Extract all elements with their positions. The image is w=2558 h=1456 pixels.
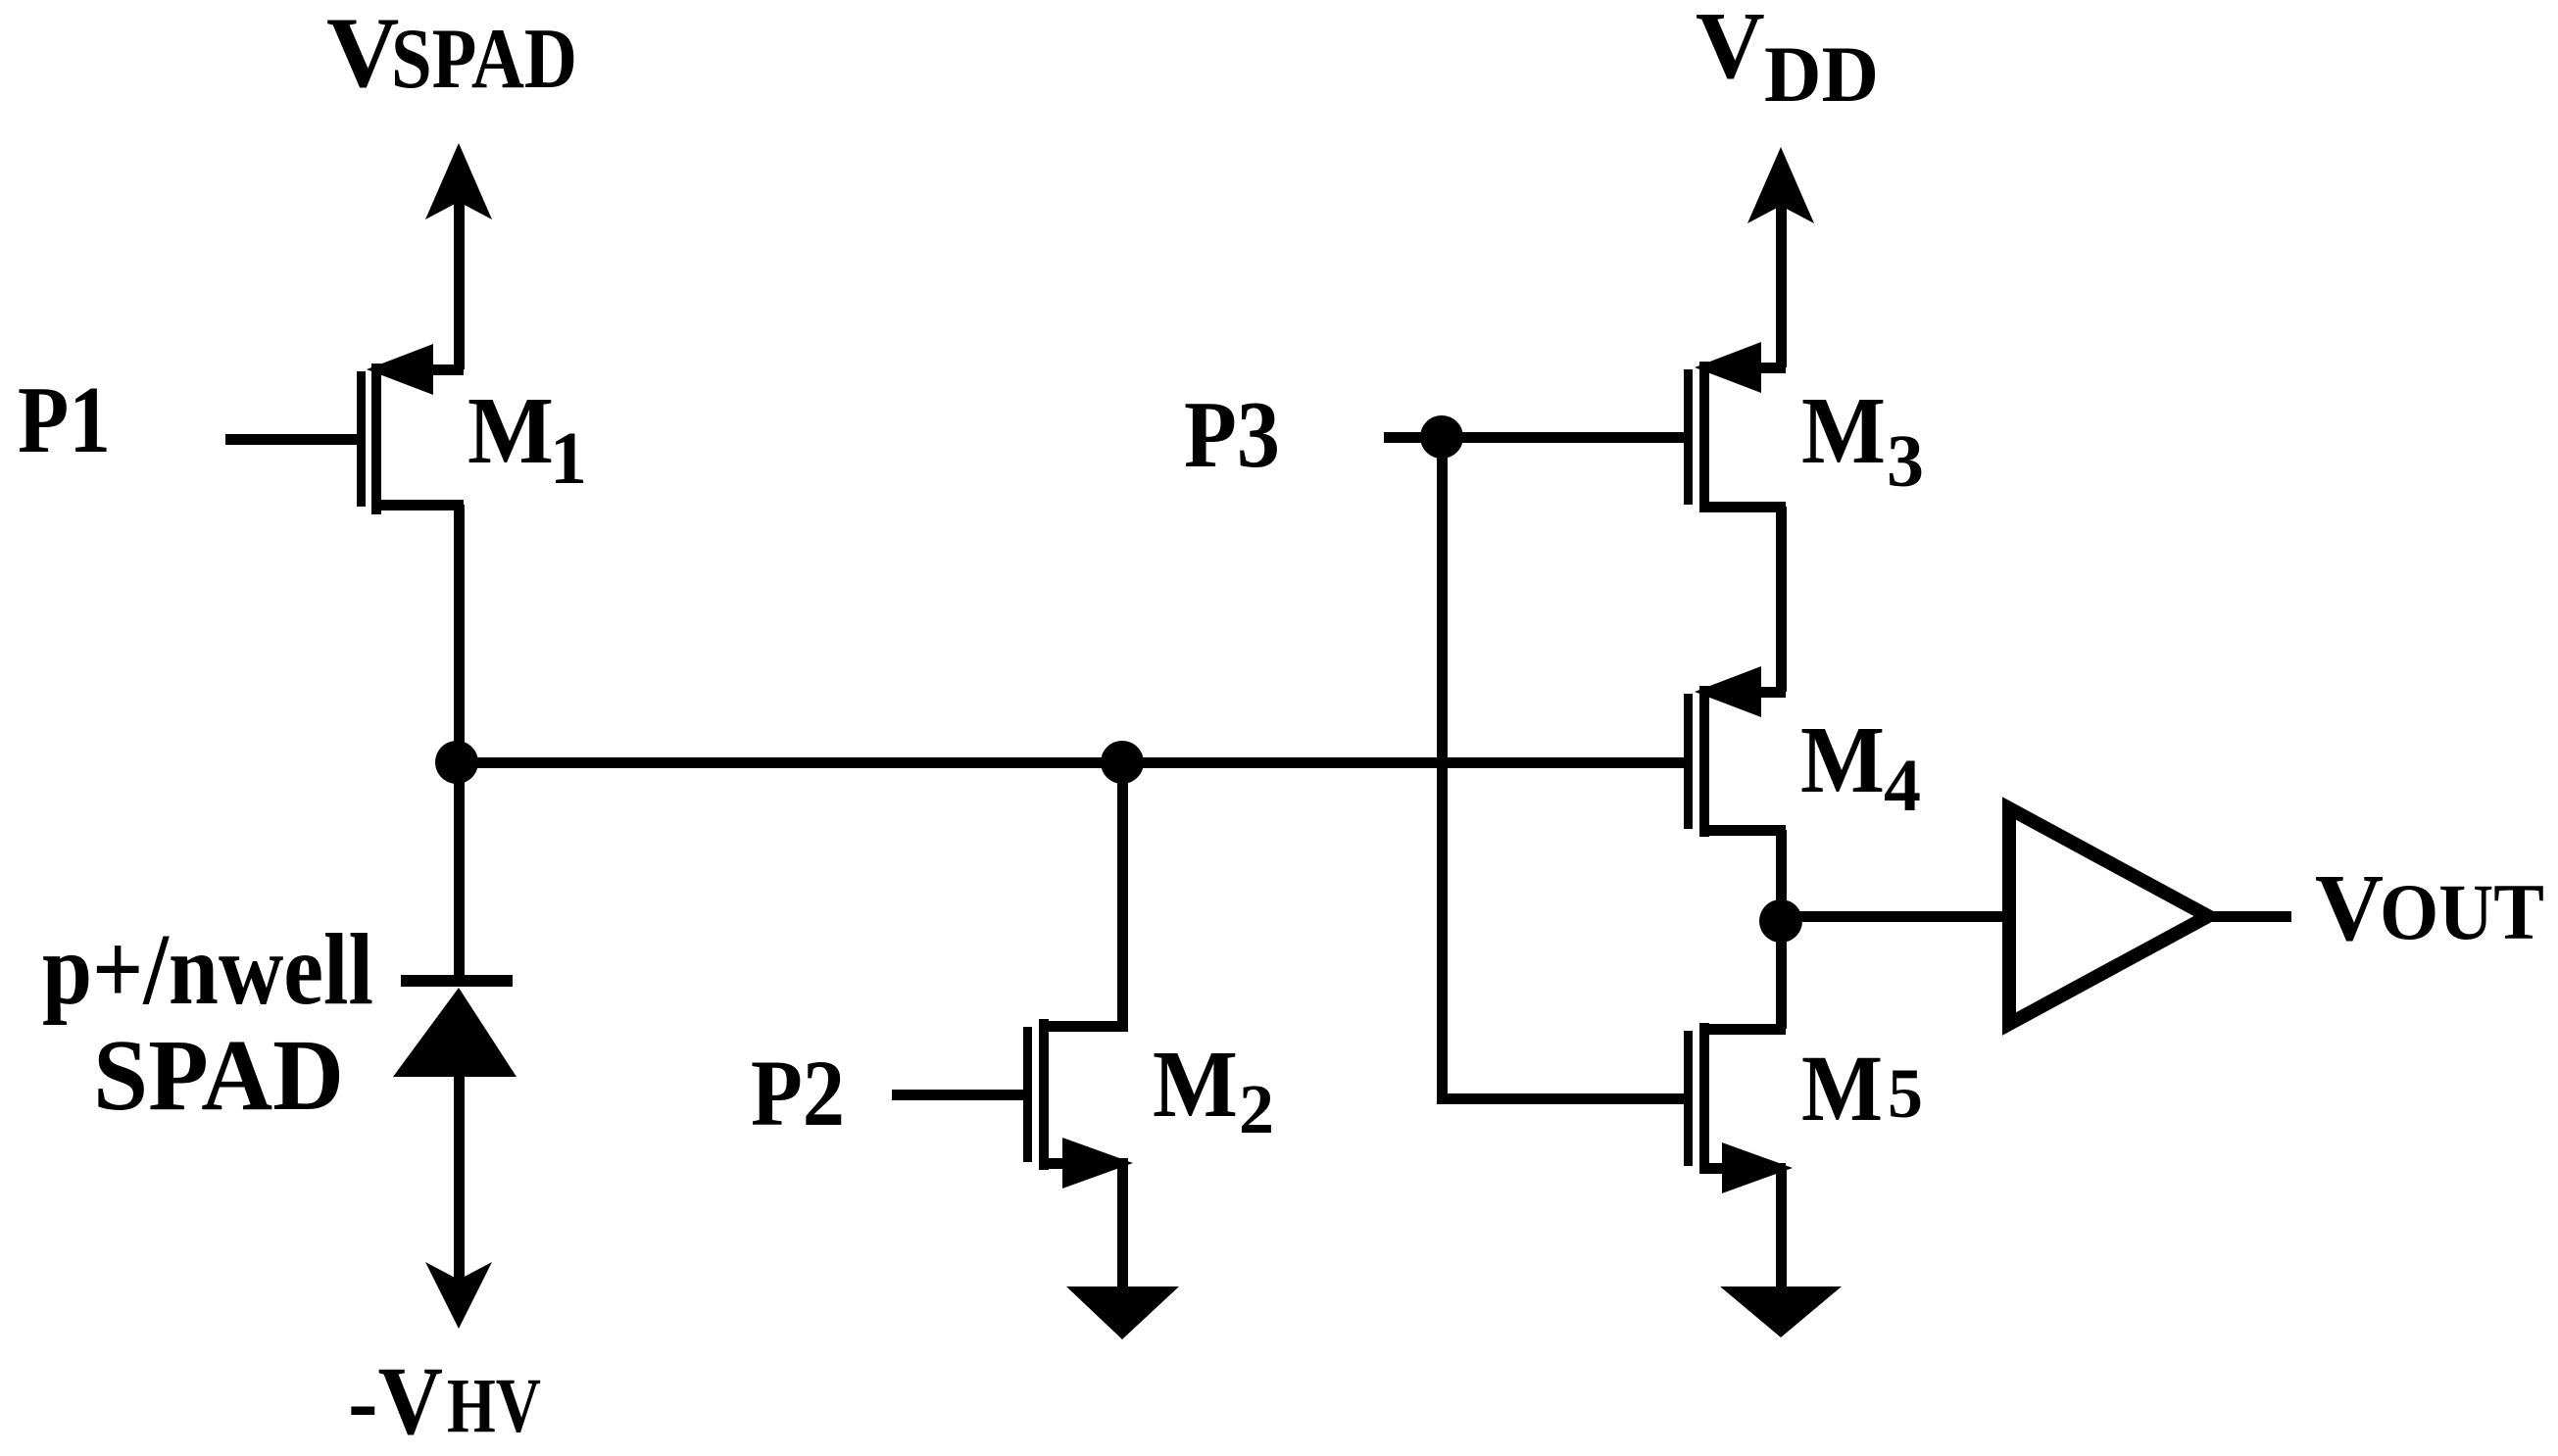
svg-text:V: V bbox=[326, 0, 399, 109]
wire node A to SPAD cathode bbox=[454, 762, 465, 977]
label M5 bbox=[1801, 1036, 1923, 1141]
svg-text:4: 4 bbox=[1884, 745, 1921, 827]
label M1 bbox=[467, 378, 587, 500]
transistor M2 (NMOS) bbox=[1023, 1019, 1133, 1290]
wire P2 to M2 gate bbox=[892, 1090, 1023, 1100]
net -VHV label bbox=[348, 1346, 541, 1455]
svg-text:M: M bbox=[467, 378, 554, 484]
svg-text:P1: P1 bbox=[18, 367, 111, 473]
wire P3 to M3 gate bbox=[1437, 432, 1684, 443]
svg-text:SPAD: SPAD bbox=[391, 12, 577, 107]
svg-text:2: 2 bbox=[1239, 1070, 1274, 1148]
node A junction dot (SPAD anode / M1 drain) bbox=[435, 741, 478, 784]
wire main horizontal net bbox=[454, 757, 1693, 768]
node B junction dot (M2 drain on main net) bbox=[1101, 741, 1144, 784]
svg-text:3: 3 bbox=[1887, 420, 1924, 503]
transistor M5 (NMOS) bbox=[1684, 917, 1793, 1290]
net -VHV arrow bbox=[425, 1262, 492, 1329]
svg-text:5: 5 bbox=[1888, 1054, 1923, 1133]
svg-text:M: M bbox=[1153, 1032, 1238, 1138]
svg-text:V: V bbox=[1696, 0, 1765, 99]
net VSPAD supply arrow bbox=[425, 143, 492, 369]
wire node B to M2 drain bbox=[1117, 762, 1128, 1026]
svg-text:M: M bbox=[1801, 1036, 1883, 1141]
net VSPAD label bbox=[326, 0, 577, 109]
wire node to buffer input bbox=[1781, 911, 2011, 922]
transistor M4 (PMOS) bbox=[1684, 666, 1787, 928]
svg-text:M: M bbox=[1801, 378, 1886, 484]
svg-text:V: V bbox=[2315, 855, 2384, 960]
net VDD label bbox=[1696, 0, 1879, 119]
svg-text:DD: DD bbox=[1764, 29, 1879, 119]
label p+/nwell SPAD bbox=[42, 913, 373, 1132]
svg-text:OUT: OUT bbox=[2380, 867, 2544, 956]
label M3 bbox=[1801, 378, 1924, 503]
svg-text:1: 1 bbox=[550, 417, 587, 500]
net VOUT label bbox=[2315, 855, 2544, 960]
svg-text:P3: P3 bbox=[1184, 382, 1280, 488]
wire P1 to M1 gate bbox=[225, 434, 357, 445]
node VOUT-int junction dot (M4 drain / M5 drain / buffer in) bbox=[1759, 899, 1802, 943]
label M2 bbox=[1153, 1032, 1274, 1148]
svg-text:SPAD: SPAD bbox=[93, 1019, 344, 1132]
net VDD supply arrow bbox=[1747, 147, 1814, 367]
transistor M1 (PMOS) bbox=[357, 344, 465, 765]
wire P3 stub bbox=[1384, 432, 1443, 443]
svg-text:p+/nwell: p+/nwell bbox=[42, 913, 373, 1026]
transistor M3 (PMOS) bbox=[1684, 342, 1787, 692]
ground symbol (M5 source) bbox=[1720, 1286, 1842, 1337]
node P3 junction dot bbox=[1420, 415, 1463, 459]
svg-text:HV: HV bbox=[447, 1364, 541, 1449]
diode SPAD (p+/nwell) bbox=[393, 975, 517, 1288]
ground symbol (M2 source) bbox=[1066, 1286, 1179, 1339]
svg-text:-V: -V bbox=[348, 1346, 443, 1455]
svg-text:M: M bbox=[1800, 707, 1885, 813]
svg-text:P2: P2 bbox=[751, 1041, 845, 1145]
wire P3 vertical to M5 gate bbox=[1437, 437, 1684, 1104]
wire buffer output to VOUT bbox=[2207, 911, 2291, 922]
op-amp buffer U1 bbox=[2009, 808, 2208, 1024]
label M4 bbox=[1800, 707, 1921, 827]
